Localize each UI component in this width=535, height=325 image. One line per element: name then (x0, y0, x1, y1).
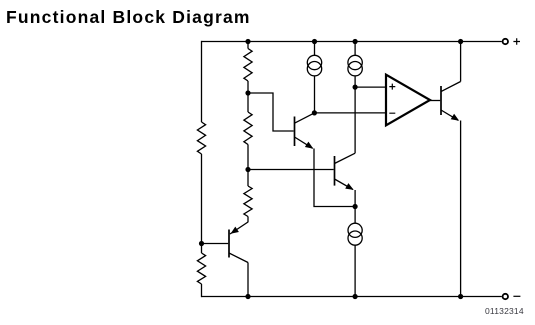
node top rail / R3 (245, 39, 250, 44)
node bottom rail / I3 (353, 294, 358, 299)
current source I3 (348, 207, 362, 297)
transistor Q3 (229, 222, 248, 263)
resistor R1 (197, 122, 205, 154)
resistor R3 (244, 49, 252, 82)
node top rail / I2 (353, 39, 358, 44)
wire R4 to node B (247, 145, 249, 187)
node top rail / Q4 collector (458, 39, 463, 44)
node E (312, 110, 317, 115)
terminal - (bottom right) (503, 294, 521, 299)
transistor Q2 (335, 153, 356, 190)
wire node B to Q2 base (248, 169, 334, 171)
wire R3 to node A (247, 81, 249, 112)
resistor R4 (244, 112, 252, 145)
current source I2 (348, 42, 362, 88)
node bottom rail / Q4 emitter (458, 294, 463, 299)
node A (245, 90, 250, 95)
node B (245, 167, 250, 172)
node D (353, 204, 358, 209)
wire Q2 emitter to node D (354, 190, 356, 207)
wire R5 to Q3 emitter (247, 217, 249, 223)
wire Q4 emitter to bottom rail (460, 121, 462, 297)
wire column 2 top stub (247, 42, 249, 49)
wire junction E to op-amp - input (314, 112, 386, 114)
wire node A to Q1 base (248, 93, 294, 131)
node top rail / I1 (312, 39, 317, 44)
wire node C to op-amp + input (355, 86, 386, 88)
wire Q3 collector to bottom rail (247, 263, 249, 297)
wire Q2 collector up to node C (354, 87, 356, 153)
node left rail / Q3 base (199, 241, 204, 246)
transistor Q1 (295, 113, 315, 149)
wire op-amp output to Q4 base (430, 100, 440, 102)
node C (353, 85, 358, 90)
terminal + (top right) (503, 38, 520, 45)
resistor R2 (197, 253, 205, 284)
transistor Q4 (441, 82, 461, 121)
wire left rail upper (201, 41, 203, 122)
op-amp U1 (386, 75, 430, 126)
wire Q4 collector to top rail (460, 42, 462, 82)
wire bottom rail (202, 296, 502, 298)
node bottom rail / Q3 collector (245, 294, 250, 299)
resistor R5 (244, 186, 252, 217)
wire left rail bottom (201, 284, 203, 297)
current source I1 (307, 42, 321, 113)
wire Q3 base to left rail (202, 243, 229, 245)
wire left rail middle (201, 154, 203, 253)
wire top rail (202, 41, 502, 43)
wire Q1 emitter down and right to node D (314, 149, 355, 207)
